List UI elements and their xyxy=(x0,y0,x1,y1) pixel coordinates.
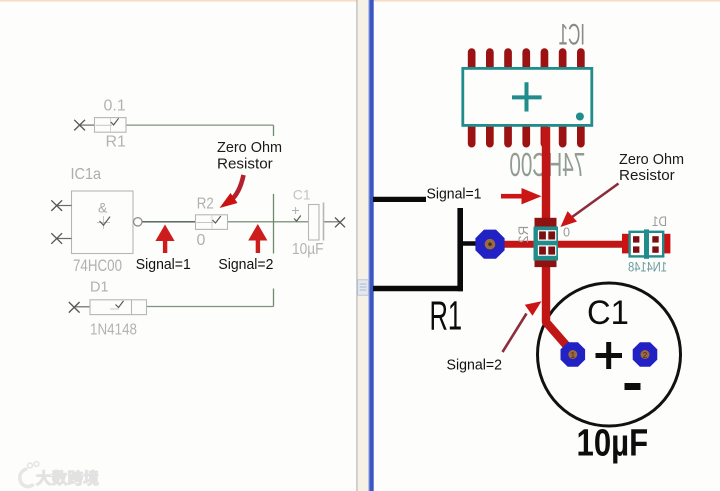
diode D1 xyxy=(74,280,146,339)
C1 plus mark xyxy=(596,342,623,369)
svg-text:R2: R2 xyxy=(516,226,531,243)
svg-text:Signal=1: Signal=1 xyxy=(136,256,191,273)
wire R2 to C1 xyxy=(228,221,309,223)
svg-text:大数跨境: 大数跨境 xyxy=(36,469,99,488)
svg-text:Resistor: Resistor xyxy=(619,167,675,184)
svg-text:+: + xyxy=(292,202,300,218)
label Signal=2 (right, white backing) xyxy=(444,356,506,374)
IC1 origin cross xyxy=(512,82,542,111)
svg-text:Signal=2: Signal=2 xyxy=(447,357,503,374)
annotation arrow Signal=2 (left) xyxy=(248,224,267,253)
svg-text:Zero Ohm: Zero Ohm xyxy=(217,139,282,156)
wire gate output to R2 xyxy=(142,221,196,223)
svg-text:0: 0 xyxy=(197,232,206,249)
capacitor C1 schematic xyxy=(292,187,324,259)
op IC1a NAND gate xyxy=(71,166,134,275)
pin marker X at D1 left xyxy=(69,302,80,313)
capacitor C1 pad 2 xyxy=(633,342,658,367)
wire net vertical (node N1) xyxy=(273,125,275,306)
svg-text:Signal=2: Signal=2 xyxy=(218,256,273,273)
annotation arrow Signal=1 (left) xyxy=(155,225,174,254)
black airwire stub to pad xyxy=(460,241,480,246)
black airwire top xyxy=(373,197,430,202)
svg-text:1: 1 xyxy=(571,351,576,360)
panel edge ivory strip xyxy=(358,0,369,491)
pin marker X at R1 left xyxy=(74,120,85,131)
label Signal=1 (right, white backing) xyxy=(426,184,485,208)
svg-text:Resistor: Resistor xyxy=(217,156,273,173)
resistor R2 footprint xyxy=(534,218,559,267)
gate output inversion bubble xyxy=(134,218,142,226)
pin marker X input 1 xyxy=(51,200,62,211)
svg-text:1N4148: 1N4148 xyxy=(628,260,667,275)
svg-text:2: 2 xyxy=(643,351,648,360)
panel edge gray line xyxy=(356,0,357,491)
C1 footprint circle outline xyxy=(538,283,681,426)
resistor R1 xyxy=(80,98,126,151)
IC1 footprint body outline xyxy=(463,68,592,125)
annotation arrow Signal=2 (right) xyxy=(503,301,542,352)
black airwire bottom xyxy=(373,286,463,292)
IC1 footprint pins top row xyxy=(468,48,585,74)
splitter handle xyxy=(358,280,369,295)
capacitor C1 pad 1 xyxy=(561,342,586,367)
diode D1 footprint xyxy=(622,229,670,258)
svg-text:R1: R1 xyxy=(430,294,463,339)
annotation curved arrow to R2 xyxy=(220,175,244,208)
label Signal=2 (left, white backing cuts net wire) xyxy=(216,254,278,289)
annotation arrow to R2 footprint xyxy=(561,184,619,228)
svg-text:C1: C1 xyxy=(293,187,311,203)
svg-text:D1: D1 xyxy=(652,214,667,229)
watermark logo xyxy=(20,462,39,487)
svg-text:Signal=1: Signal=1 xyxy=(427,186,482,203)
svg-text:C1: C1 xyxy=(587,294,629,332)
svg-text:IC1: IC1 xyxy=(559,18,586,51)
svg-text:74HC00: 74HC00 xyxy=(73,257,122,275)
annotation arrow Signal=1 (right) xyxy=(501,188,542,204)
pin marker X input 2 xyxy=(51,233,62,244)
wire gate input 2 xyxy=(57,238,72,240)
resistor R2 xyxy=(196,196,228,250)
label Signal=1 (left) xyxy=(134,256,195,273)
svg-text:10µF: 10µF xyxy=(577,423,649,465)
black airwire vertical xyxy=(457,207,463,292)
IC1 footprint pins bottom row xyxy=(468,121,585,148)
wire gate input 1 xyxy=(57,205,72,207)
svg-text:0: 0 xyxy=(563,226,570,240)
label Zero Ohm Resistor (left, with white backing) xyxy=(212,136,290,194)
pin marker X at C1 right xyxy=(335,218,345,228)
svg-text:D1: D1 xyxy=(90,280,109,296)
wire D1 to net corner xyxy=(147,306,274,308)
wire R1 output to net corner xyxy=(126,124,274,126)
svg-text:1N4148: 1N4148 xyxy=(90,322,137,339)
label Zero Ohm Resistor (right) xyxy=(619,151,684,184)
blue splitter bar xyxy=(369,0,374,491)
red trace horizontal R1 pad to D1 xyxy=(502,241,666,248)
svg-text:0.1: 0.1 xyxy=(104,98,126,115)
svg-text:Zero Ohm: Zero Ohm xyxy=(619,151,684,168)
svg-text:R2: R2 xyxy=(197,196,214,213)
C1 minus mark xyxy=(625,383,641,390)
top window border line xyxy=(0,0,720,2)
IC1 pin1 dot xyxy=(576,113,584,121)
red trace from IC pin down to C1 pad xyxy=(546,127,573,353)
svg-text:R1: R1 xyxy=(106,134,127,151)
svg-text:IC1a: IC1a xyxy=(71,166,102,183)
svg-text:&: & xyxy=(98,200,108,216)
svg-text:10µF: 10µF xyxy=(292,241,324,258)
wire C1 to pin marker xyxy=(324,221,341,223)
via pad (node Signal) xyxy=(475,230,504,259)
